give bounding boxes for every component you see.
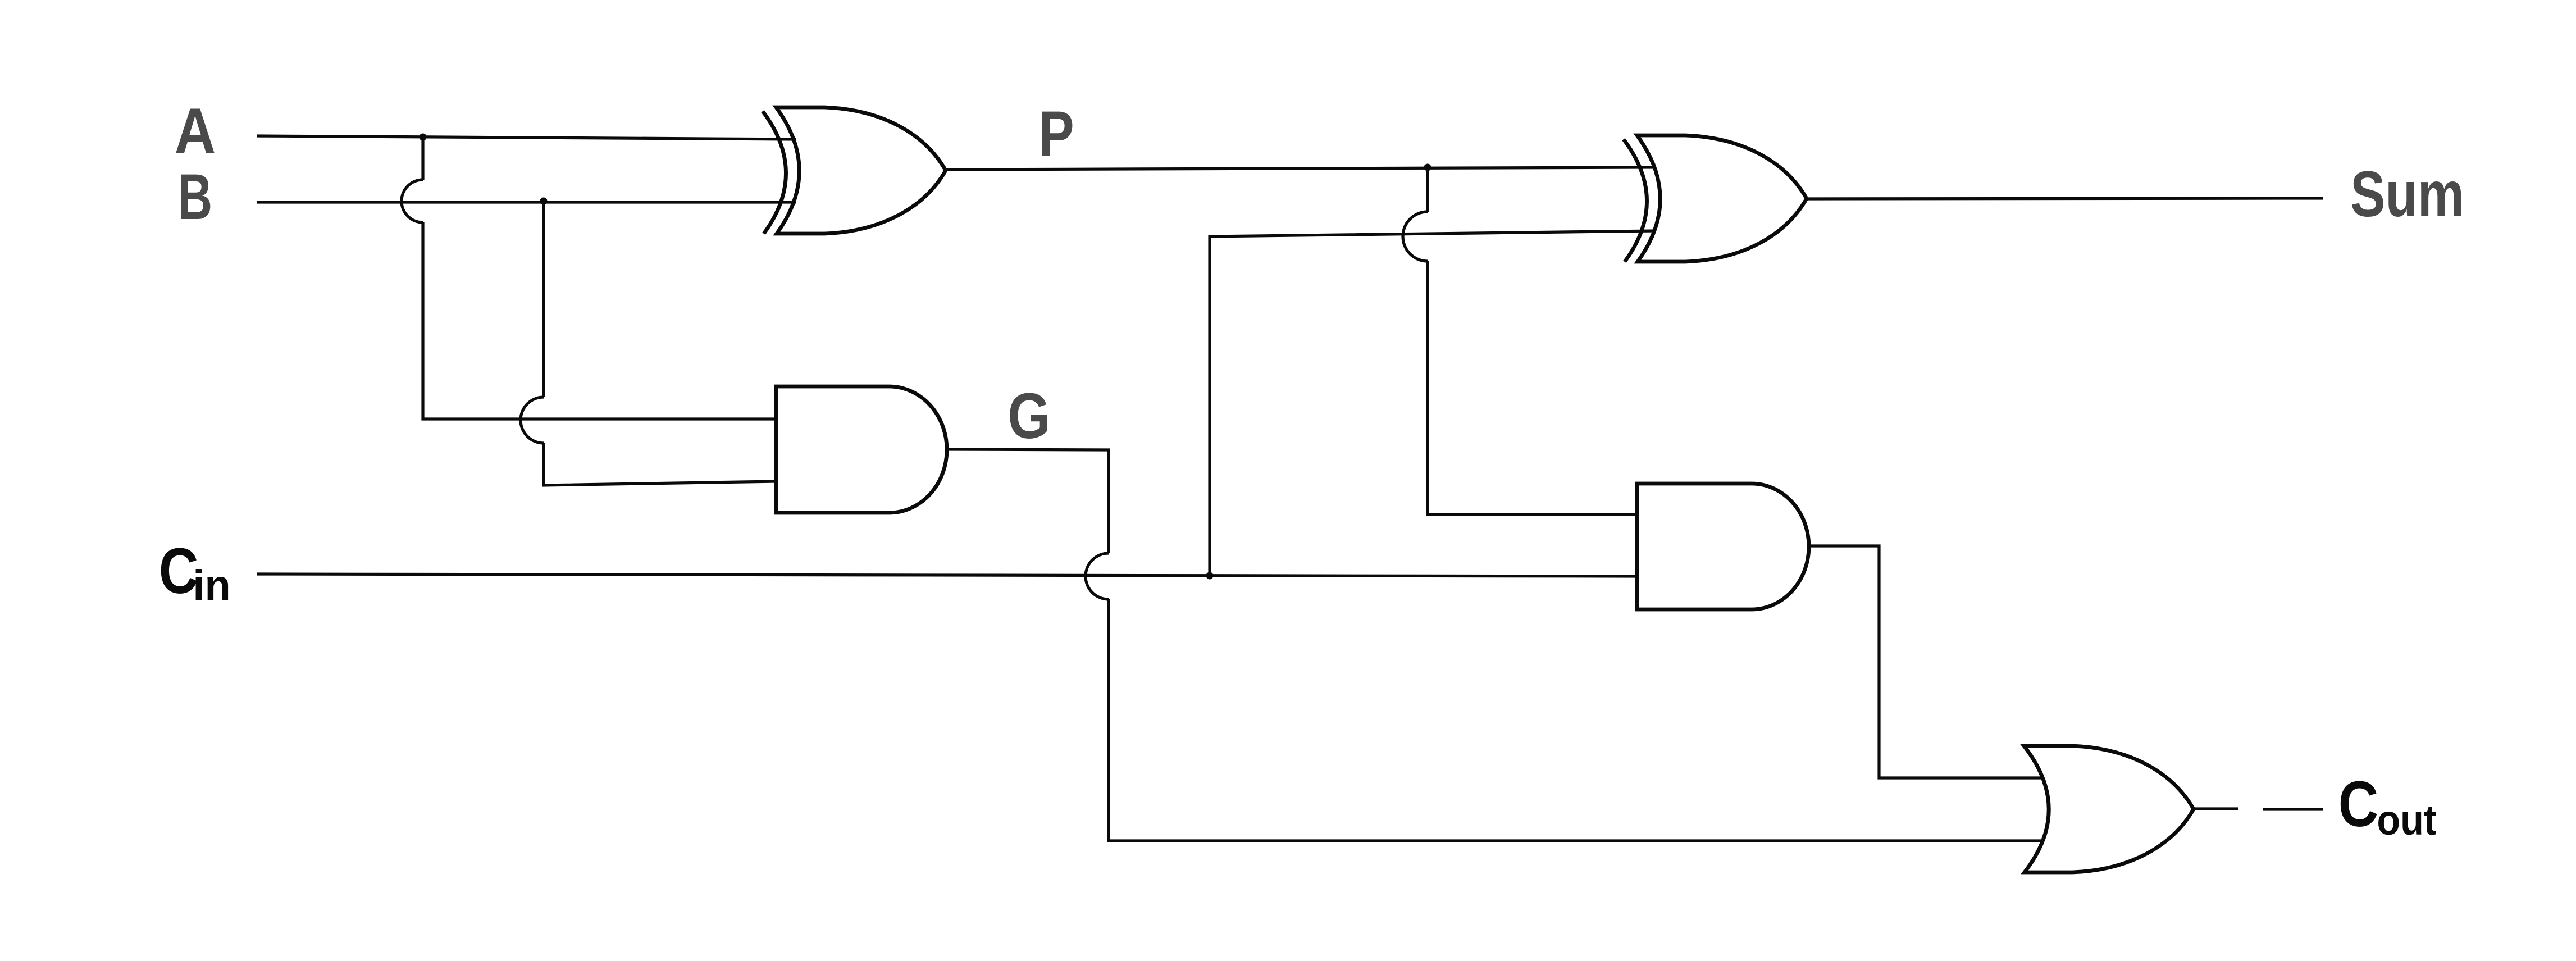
svg-text:B: B (178, 161, 212, 233)
svg-text:P: P (1038, 98, 1074, 170)
svg-text:C: C (2338, 768, 2378, 840)
svg-text:out: out (2377, 797, 2436, 844)
svg-text:in: in (193, 562, 231, 609)
svg-text:Sum: Sum (2350, 158, 2464, 230)
svg-text:G: G (1007, 380, 1050, 452)
svg-text:A: A (175, 95, 216, 167)
